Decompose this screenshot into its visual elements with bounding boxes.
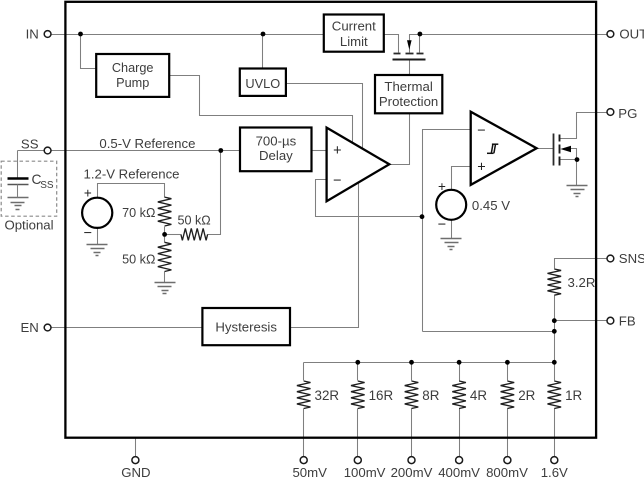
- svg-text:Limit: Limit: [340, 34, 368, 49]
- svg-text:Delay: Delay: [259, 148, 293, 163]
- svg-text:Pump: Pump: [116, 76, 149, 90]
- svg-text:50mV: 50mV: [292, 465, 327, 478]
- svg-text:+: +: [438, 179, 446, 194]
- svg-text:−: −: [477, 123, 485, 139]
- svg-text:IN: IN: [26, 26, 39, 41]
- svg-text:OUT: OUT: [619, 26, 644, 41]
- svg-text:FB: FB: [619, 313, 636, 328]
- svg-text:400mV: 400mV: [438, 465, 480, 478]
- svg-text:−: −: [333, 173, 341, 189]
- svg-text:50 kΩ: 50 kΩ: [178, 214, 211, 228]
- svg-text:700-µs: 700-µs: [256, 134, 297, 149]
- svg-text:Charge: Charge: [112, 61, 154, 75]
- svg-text:1R: 1R: [565, 388, 582, 403]
- svg-text:70 kΩ: 70 kΩ: [122, 206, 155, 220]
- svg-text:Optional: Optional: [4, 218, 53, 233]
- svg-text:8R: 8R: [422, 388, 439, 403]
- svg-text:GND: GND: [121, 465, 150, 478]
- svg-text:Thermal: Thermal: [384, 79, 432, 94]
- svg-text:−: −: [438, 217, 446, 233]
- svg-text:100mV: 100mV: [344, 465, 386, 478]
- svg-text:32R: 32R: [315, 388, 340, 403]
- svg-text:16R: 16R: [369, 388, 394, 403]
- svg-text:+: +: [477, 160, 485, 176]
- svg-text:4R: 4R: [470, 388, 487, 403]
- svg-text:200mV: 200mV: [391, 465, 433, 478]
- svg-text:800mV: 800mV: [486, 465, 528, 478]
- svg-text:SS: SS: [40, 180, 54, 191]
- svg-text:1.2-V Reference: 1.2-V Reference: [83, 167, 179, 182]
- svg-text:UVLO: UVLO: [245, 76, 280, 91]
- svg-text:EN: EN: [20, 320, 38, 335]
- svg-text:−: −: [84, 225, 92, 241]
- svg-text:Current: Current: [332, 19, 376, 34]
- svg-text:SNS: SNS: [619, 251, 644, 266]
- svg-text:0.5-V Reference: 0.5-V Reference: [99, 136, 195, 151]
- svg-text:2R: 2R: [518, 388, 535, 403]
- svg-text:+: +: [333, 143, 341, 159]
- svg-text:PG: PG: [618, 106, 637, 121]
- svg-text:Hysteresis: Hysteresis: [215, 319, 277, 334]
- svg-text:3.2R: 3.2R: [568, 275, 596, 290]
- svg-text:+: +: [84, 186, 92, 201]
- svg-text:0.45 V: 0.45 V: [472, 198, 510, 213]
- svg-text:Protection: Protection: [379, 94, 438, 109]
- svg-text:SS: SS: [21, 136, 39, 151]
- svg-text:1.6V: 1.6V: [541, 465, 568, 478]
- svg-text:50 kΩ: 50 kΩ: [122, 253, 155, 267]
